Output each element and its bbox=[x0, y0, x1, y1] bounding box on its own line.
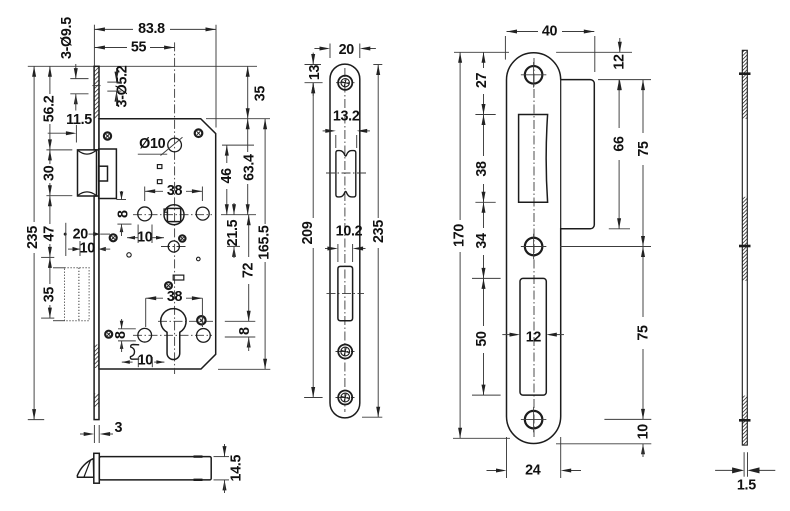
cylinder cutout in faceplate bbox=[338, 266, 353, 320]
strike latch opening bbox=[519, 115, 548, 203]
dimension 3 faceplate thickness bbox=[80, 420, 123, 443]
svg-text:24: 24 bbox=[525, 462, 541, 478]
dashed knob rectangle (hidden outline) lower left bbox=[53, 268, 89, 321]
dimension 40 strike overall width bbox=[505, 23, 594, 72]
svg-text:30: 30 bbox=[42, 165, 58, 181]
svg-text:27: 27 bbox=[474, 73, 490, 89]
small square hole upper bbox=[157, 165, 162, 169]
right extension: case top bbox=[206, 118, 270, 120]
right extension: hole below spindle bbox=[227, 245, 240, 247]
svg-text:8: 8 bbox=[113, 331, 129, 339]
svg-text:165.5: 165.5 bbox=[257, 225, 273, 260]
svg-text:8: 8 bbox=[237, 327, 253, 335]
dimension 75 lower right bbox=[604, 247, 651, 420]
tiny hole right bbox=[197, 257, 201, 261]
dimension 235 overall faceplate height bbox=[25, 66, 44, 419]
centerline: bottom screw bbox=[336, 397, 355, 399]
svg-text:14.5: 14.5 bbox=[229, 455, 245, 482]
dimension 1.5 strike thickness bbox=[715, 452, 775, 493]
svg-text:50: 50 bbox=[474, 331, 490, 347]
latch bottom view: latch body bbox=[99, 457, 211, 480]
fixing hole right of cylinder bbox=[197, 329, 211, 343]
screw S3 left of case middle bbox=[110, 234, 117, 241]
strike side: bottom screw flange bbox=[739, 419, 751, 422]
svg-text:13.2: 13.2 bbox=[333, 108, 360, 124]
svg-text:10: 10 bbox=[138, 352, 154, 368]
svg-text:235: 235 bbox=[371, 220, 387, 243]
svg-text:55: 55 bbox=[131, 39, 147, 55]
dimension 165.5 overall case height bbox=[257, 119, 273, 370]
right extension: O10 center bbox=[222, 144, 254, 146]
svg-text:170: 170 bbox=[452, 224, 468, 247]
dimension 235 faceplate length (front view) bbox=[362, 65, 387, 418]
svg-text:10: 10 bbox=[80, 240, 96, 256]
dimension 24 strike plate width bbox=[487, 437, 582, 478]
latch bottom view: beveled latch head wedge bbox=[77, 459, 94, 478]
dimension 35 vertical lower-left bbox=[41, 257, 57, 318]
centerline: cylinder row horizontal bbox=[133, 334, 212, 336]
dimension 63.4 vertical right bbox=[242, 119, 258, 215]
strike side: top screw flange bbox=[739, 72, 751, 75]
centerline: hole below spindle bbox=[161, 246, 187, 248]
centerline: top screw bbox=[336, 82, 355, 84]
centerline: faceplate vertical axis bbox=[344, 68, 346, 412]
svg-text:40: 40 bbox=[542, 23, 558, 39]
dimension 34 between openings bbox=[472, 202, 501, 278]
latch bottom view: follower marks on edges bbox=[194, 455, 203, 481]
dimension 11.5 latch protrusion bbox=[48, 112, 93, 143]
spindle follower circle with 8mm square bbox=[164, 205, 184, 225]
dimension 83.8 horizontal top bbox=[94, 21, 216, 127]
strike side: middle screw flange bbox=[739, 245, 751, 248]
svg-text:1.5: 1.5 bbox=[737, 477, 756, 493]
dimension 170 strike overall height bbox=[452, 52, 510, 438]
dimension 38 cylinder row bbox=[146, 289, 203, 327]
strike middle screw bbox=[521, 234, 547, 260]
faceplate side view (hatched bar), lower segment bbox=[94, 196, 99, 420]
svg-text:3-Ø9.5: 3-Ø9.5 bbox=[59, 17, 75, 59]
centerline: strike vertical axis bbox=[533, 58, 535, 437]
dimension 20 backset reference bbox=[64, 223, 110, 256]
dimension 10 cylinder-row hole bbox=[122, 352, 165, 368]
svg-text:11.5: 11.5 bbox=[66, 112, 92, 128]
handle fixing hole right of spindle bbox=[196, 207, 209, 220]
hole O10 top bbox=[168, 138, 182, 152]
dimension 75 upper right bbox=[560, 80, 652, 247]
centerline: middle screw bbox=[336, 351, 355, 353]
faceplate middle screw bbox=[338, 345, 352, 359]
profile cylinder hole (euro profile) bbox=[161, 309, 186, 360]
hole below spindle (21.5) bbox=[168, 241, 179, 252]
dimension 55 horizontal bbox=[94, 39, 174, 55]
centerline: cylinder cutout bbox=[327, 293, 365, 295]
latch bolt tail inside case bbox=[99, 149, 117, 199]
dimension 56.2 vertical bbox=[42, 66, 73, 150]
dimension 8 left of cylinder bbox=[113, 319, 136, 352]
svg-text:21.5: 21.5 bbox=[225, 219, 241, 246]
strike plate outline with lip bbox=[507, 53, 595, 444]
svg-text:72: 72 bbox=[241, 263, 257, 279]
svg-text:46: 46 bbox=[219, 168, 235, 184]
svg-text:63.4: 63.4 bbox=[242, 154, 258, 181]
svg-text:10: 10 bbox=[137, 230, 153, 246]
dimension 13 top screw position bbox=[305, 53, 323, 96]
strike top screw bbox=[521, 62, 547, 88]
right extension: cylinder side hole bbox=[225, 336, 256, 338]
dimension 35 top right bbox=[246, 66, 269, 118]
strike bottom screw bbox=[521, 407, 547, 433]
latch bolt head (side view) with bevel arcs bbox=[78, 150, 97, 196]
svg-text:47: 47 bbox=[42, 226, 58, 242]
dimension 209 screw distance bbox=[300, 83, 323, 398]
faceplate side view (hatched bar), upper segment bbox=[94, 66, 99, 150]
dimension 30 latch height bbox=[42, 150, 73, 196]
dimension 10.2 cylinder cutout width bbox=[325, 224, 366, 263]
faceplate top screw bbox=[338, 76, 352, 90]
svg-text:83.8: 83.8 bbox=[138, 21, 165, 37]
handle fixing hole left of spindle bbox=[138, 207, 152, 221]
latch front view (rect with curved crest) bbox=[336, 151, 356, 197]
dimension 10 left pair bbox=[68, 240, 110, 256]
svg-text:Ø10: Ø10 bbox=[139, 136, 165, 152]
screw S2 top-right of case bbox=[195, 129, 203, 137]
strike plate bend line bbox=[560, 80, 562, 229]
dimension 10 spindle-row hole bbox=[127, 225, 164, 246]
small square hole lower bbox=[157, 180, 162, 184]
fixing hole left of cylinder bbox=[138, 328, 152, 342]
lock case outline with chamfered right corners bbox=[99, 119, 216, 369]
wire: top extension line, faceplate top edge level bbox=[28, 65, 94, 67]
spring clip feature left of cylinder bbox=[130, 345, 139, 360]
strike cylinder opening bbox=[520, 278, 546, 395]
svg-text:66: 66 bbox=[611, 136, 627, 152]
dimension 27 strike top to latch opening bbox=[454, 52, 509, 114]
svg-text:3: 3 bbox=[115, 420, 123, 436]
screw S7 left of cylinder row bbox=[105, 331, 112, 338]
screw S6 right of cylinder bbox=[197, 316, 205, 324]
svg-text:20: 20 bbox=[339, 42, 355, 58]
svg-text:34: 34 bbox=[474, 233, 490, 249]
svg-text:75: 75 bbox=[636, 325, 652, 341]
screw S4 right of spindle lower bbox=[179, 235, 185, 241]
dimension 38 strike latch opening height bbox=[474, 115, 496, 203]
svg-text:56.2: 56.2 bbox=[42, 95, 58, 122]
screw S1 top-left of case bbox=[104, 132, 111, 139]
dimension 50 cylinder opening height bbox=[472, 278, 501, 395]
svg-text:209: 209 bbox=[300, 221, 316, 244]
dimension 14.5 latch height bbox=[214, 444, 245, 493]
dimension 21.5 vertical right bbox=[225, 203, 241, 258]
centerline: vertical axis of lock (x=174.6) bbox=[174, 42, 176, 374]
svg-text:38: 38 bbox=[167, 183, 183, 199]
centerline: cylinder center horizontal bbox=[158, 320, 213, 322]
svg-text:38: 38 bbox=[474, 161, 490, 177]
svg-text:12: 12 bbox=[612, 54, 628, 70]
faceplate bottom screw bbox=[338, 391, 352, 405]
dimension 8 vertical right bbox=[237, 327, 253, 351]
svg-text:38: 38 bbox=[167, 289, 183, 305]
dimension 8 above spindle bbox=[115, 191, 131, 236]
dimension 72 vertical right bbox=[241, 215, 257, 322]
right extension: cylinder center bbox=[225, 320, 256, 322]
centerline: latch axis bbox=[326, 172, 366, 174]
svg-text:35: 35 bbox=[253, 86, 269, 102]
svg-text:75: 75 bbox=[636, 141, 652, 157]
svg-text:8: 8 bbox=[115, 210, 131, 218]
small slot rectangle above cylinder bbox=[173, 275, 184, 280]
dimension 12 lip offset bbox=[556, 38, 651, 90]
svg-text:12: 12 bbox=[526, 330, 542, 346]
dimension 66 lip length bbox=[609, 80, 630, 229]
strike side profile bar (hatched segments) bbox=[742, 50, 747, 445]
svg-text:10.2: 10.2 bbox=[336, 224, 363, 240]
dimension 20 faceplate width bbox=[314, 42, 376, 58]
svg-text:10: 10 bbox=[635, 424, 651, 440]
dimension 38 spindle row bbox=[145, 183, 203, 201]
dimension 12 cylinder opening width bbox=[502, 330, 564, 346]
dimension 13.2 latch width bbox=[323, 108, 370, 148]
latch stem rectangle bbox=[99, 166, 108, 181]
svg-text:13: 13 bbox=[307, 65, 323, 81]
dimension 10 strike bottom bbox=[556, 424, 651, 457]
screw S5 above cylinder bbox=[165, 282, 172, 289]
svg-text:235: 235 bbox=[25, 226, 41, 249]
dimension 3-O5.2 case holes bbox=[92, 65, 130, 107]
right extension: spindle center bbox=[221, 214, 256, 216]
faceplate front view outline (stadium shape) bbox=[330, 64, 360, 418]
svg-text:35: 35 bbox=[42, 287, 58, 303]
tiny hole left bbox=[127, 253, 131, 257]
dimension 3-O9.5 faceplate holes bbox=[59, 17, 89, 111]
label O10 with underline bbox=[138, 136, 167, 154]
latch bottom view: faceplate cross-section bbox=[94, 453, 100, 483]
leader line for O10 label bbox=[161, 137, 183, 155]
right extension: case bottom bbox=[218, 368, 270, 370]
dimension 47 vertical bbox=[41, 196, 57, 258]
dimension 46 vertical right bbox=[219, 145, 235, 215]
centerline: spindle row horizontal bbox=[133, 214, 212, 216]
